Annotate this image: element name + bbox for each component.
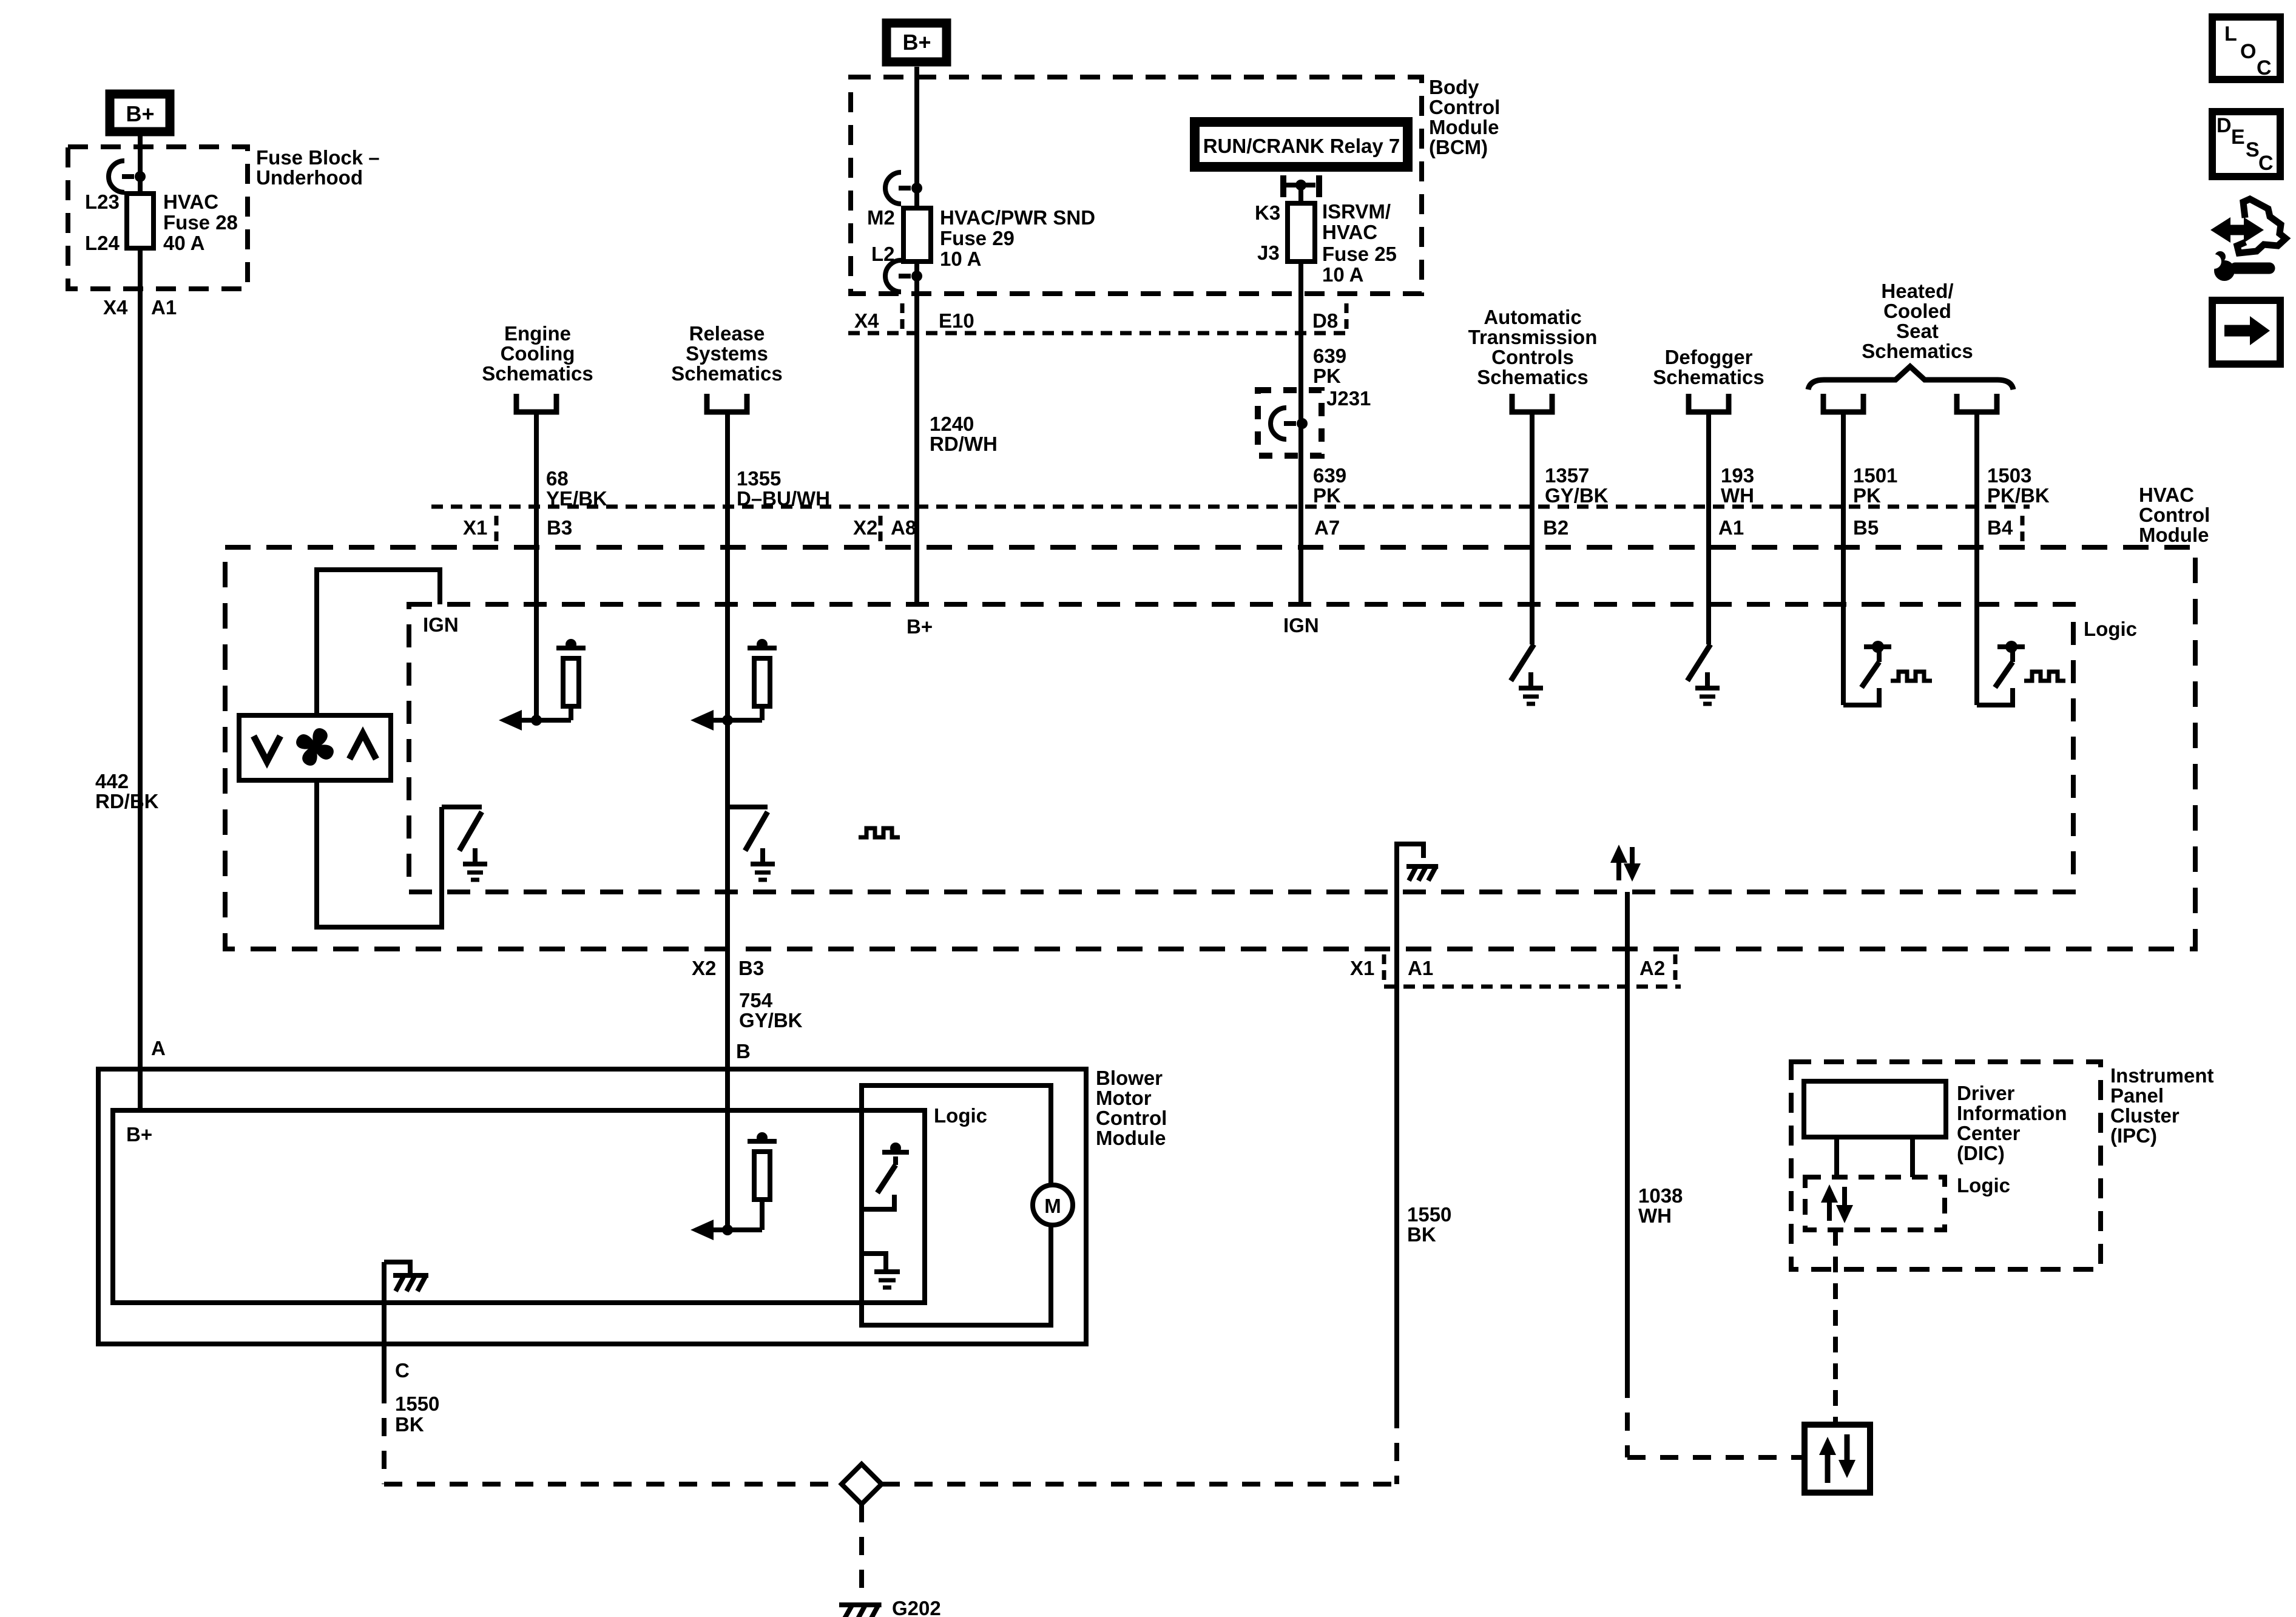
svg-text:A1: A1 [1408, 957, 1433, 979]
icon forward reference arrow box [2212, 300, 2280, 364]
wire 442 RD/BK [138, 248, 143, 1110]
svg-text:O: O [2240, 40, 2256, 63]
wire 442 from B+ through Fuse 28 down to blower module [138, 136, 143, 194]
svg-text:Information: Information [1957, 1102, 2067, 1124]
in-line connector row X1/X2 of HVAC control module [431, 505, 2030, 509]
svg-text:C: C [395, 1359, 410, 1382]
wire fan box top loop to IGN logic [317, 570, 440, 715]
relay RUN/CRANK Relay 7 [1195, 122, 1408, 167]
driver information center DIC [1804, 1081, 1946, 1137]
fan control box [239, 715, 391, 780]
internal B+ rail box [113, 1110, 925, 1303]
svg-text:Logic: Logic [2084, 618, 2137, 640]
fuse F29 HVAC/PWR SND 10 A [903, 208, 931, 262]
svg-text:ISRVM/: ISRVM/ [1322, 200, 1391, 223]
svg-text:M2: M2 [867, 206, 895, 229]
connector tick X2 [879, 516, 883, 541]
svg-text:A1: A1 [1718, 516, 1744, 539]
svg-text:HVAC: HVAC [2139, 484, 2194, 506]
svg-text:A: A [151, 1037, 166, 1059]
schematic link symbol heated seat [1823, 394, 1863, 412]
fan icon [296, 728, 334, 766]
svg-text:Panel: Panel [2110, 1084, 2164, 1107]
instrument panel cluster IPC box [1791, 1062, 2101, 1269]
svg-text:X1: X1 [1350, 957, 1374, 979]
svg-text:1357: 1357 [1545, 464, 1589, 487]
schematic link symbol defogger [1689, 394, 1729, 412]
HVAC control module box [225, 547, 2195, 949]
svg-text:HVAC/PWR SND: HVAC/PWR SND [940, 206, 1095, 229]
brace heated/cooled seat schematics [1808, 366, 2013, 390]
splice clip at fuse block [109, 161, 134, 192]
icon connector end view (double arrow, glove outline, wrench) [2226, 225, 2250, 235]
resistor pull-up on blower input B [748, 1139, 777, 1144]
svg-text:G202: G202 [892, 1597, 941, 1617]
svg-text:Schematics: Schematics [1653, 366, 1764, 388]
schematic link symbol automatic transmission controls [1512, 394, 1552, 412]
wire 1550 BK from blower C terminal [382, 1262, 387, 1385]
svg-text:68: 68 [546, 467, 569, 490]
wire 1550 BK from HVAC [1394, 844, 1399, 1410]
svg-text:BK: BK [1407, 1223, 1436, 1246]
fuse block - underhood box [68, 147, 248, 289]
svg-text:1240: 1240 [930, 413, 974, 435]
wire DIC to logic right [1910, 1137, 1915, 1177]
blower logic box [862, 1085, 1051, 1325]
power symbol B+ (underhood) [110, 94, 170, 132]
splice clip above fuse 29 [885, 172, 911, 204]
svg-text:WH: WH [1721, 484, 1754, 507]
svg-text:D: D [2217, 114, 2232, 137]
svg-text:Fuse 28: Fuse 28 [163, 211, 238, 234]
svg-text:Release: Release [689, 322, 765, 345]
svg-text:442: 442 [95, 770, 129, 792]
switch in blower logic [882, 1150, 909, 1155]
body control module BCM box [851, 77, 1422, 294]
svg-text:10 A: 10 A [940, 248, 981, 270]
svg-text:Automatic: Automatic [1484, 306, 1581, 328]
wire fan box bottom loop to output switch [317, 780, 442, 927]
svg-text:Logic: Logic [934, 1104, 987, 1127]
schematic link symbol engine cooling [516, 394, 556, 412]
wire 639 PK from fuse 25 to HVAC control module [1298, 262, 1303, 604]
svg-text:Fuse Block –: Fuse Block – [256, 146, 380, 169]
fan increase chevron [349, 734, 376, 759]
svg-text:IGN: IGN [1283, 614, 1319, 636]
svg-text:Module: Module [2139, 524, 2209, 546]
chassis ground hook in blower module (wire C) [384, 1262, 410, 1273]
icon DESC box [2212, 112, 2280, 177]
svg-text:40 A: 40 A [163, 232, 204, 254]
svg-text:PK: PK [1313, 484, 1341, 507]
svg-text:Fuse 29: Fuse 29 [940, 227, 1015, 249]
svg-text:C: C [2257, 56, 2272, 79]
svg-text:Driver: Driver [1957, 1082, 2015, 1104]
svg-text:K3: K3 [1255, 201, 1280, 224]
signal ground defogger input [1705, 672, 1710, 688]
svg-text:PK/BK: PK/BK [1987, 484, 2050, 507]
svg-text:Module: Module [1096, 1127, 1166, 1149]
svg-text:Heated/: Heated/ [1881, 280, 1953, 302]
svg-text:L: L [2224, 22, 2237, 46]
svg-text:A8: A8 [891, 516, 916, 539]
svg-text:Cooled: Cooled [1883, 300, 1951, 322]
schematic link symbol cooled seat [1957, 394, 1997, 412]
svg-text:D8: D8 [1312, 309, 1338, 332]
svg-text:Controls: Controls [1491, 346, 1574, 368]
signal ground ATC input [1528, 672, 1533, 688]
relay contact bracket [1280, 175, 1286, 197]
svg-text:639: 639 [1313, 345, 1346, 367]
svg-text:639: 639 [1313, 464, 1346, 487]
splice clip J231 [1271, 408, 1296, 439]
blower command output switch [728, 805, 768, 809]
fan decrease chevron [254, 736, 280, 761]
fuse F28 HVAC Fuse 28 40 A [127, 194, 154, 248]
wire 68 YE/BK [534, 412, 539, 720]
wire DIC to logic left [1834, 1137, 1839, 1177]
power symbol B+ (BCM) [886, 23, 947, 62]
svg-text:1503: 1503 [1987, 464, 2031, 487]
svg-text:Schematics: Schematics [482, 362, 593, 385]
svg-text:Instrument: Instrument [2110, 1064, 2214, 1087]
svg-text:X4: X4 [854, 309, 879, 332]
svg-text:Blower: Blower [1096, 1067, 1163, 1089]
ground bus to G202 [384, 1482, 842, 1487]
fuse F25 ISRVM/HVAC Fuse 25 10 A [1288, 203, 1315, 262]
svg-text:Underhood: Underhood [256, 166, 363, 189]
svg-text:RD/BK: RD/BK [95, 790, 159, 812]
svg-text:B3: B3 [547, 516, 572, 539]
svg-text:B+: B+ [902, 30, 931, 55]
svg-text:X2: X2 [853, 516, 877, 539]
svg-text:X1: X1 [463, 516, 487, 539]
svg-text:(IPC): (IPC) [2110, 1124, 2157, 1147]
svg-text:Center: Center [1957, 1122, 2021, 1144]
svg-text:B+: B+ [126, 101, 154, 126]
svg-text:PK: PK [1313, 365, 1341, 387]
connector tick X1|A1 [1382, 954, 1386, 985]
splice clip below fuse 29 [885, 260, 911, 292]
splice J231 box [1258, 390, 1322, 456]
svg-text:Defogger: Defogger [1665, 346, 1753, 368]
svg-text:(DIC): (DIC) [1957, 1142, 2005, 1164]
resistor pull-up on input B3 [556, 646, 586, 650]
svg-text:754: 754 [739, 989, 773, 1011]
svg-text:Schematics: Schematics [1477, 366, 1588, 388]
svg-text:S: S [2246, 138, 2260, 161]
svg-text:RUN/CRANK Relay 7: RUN/CRANK Relay 7 [1203, 135, 1400, 157]
heated seat output switch w/ PWM [1843, 688, 1879, 705]
svg-text:IGN: IGN [423, 613, 459, 636]
connector line X4/E10/D8 [848, 331, 1350, 336]
defogger input switch [1687, 644, 1710, 681]
wire B+ into BCM [914, 67, 919, 208]
svg-text:1550: 1550 [395, 1393, 439, 1415]
ground G202 [839, 1605, 882, 1617]
svg-text:BK: BK [395, 1413, 424, 1436]
serial data arrows in node box [1825, 1451, 1831, 1483]
serial data arrows in HVAC logic [1616, 857, 1621, 880]
svg-text:A7: A7 [1314, 516, 1340, 539]
svg-text:Logic: Logic [1957, 1174, 2010, 1197]
splice diamond [842, 1464, 882, 1504]
IPC logic box [1805, 1177, 1945, 1230]
svg-text:HVAC: HVAC [1322, 221, 1377, 243]
svg-text:A1: A1 [151, 296, 177, 319]
svg-text:Systems: Systems [686, 342, 768, 365]
connector tick A2 [1673, 954, 1678, 985]
svg-text:B+: B+ [126, 1123, 152, 1146]
connector tick X1 [495, 516, 499, 541]
svg-text:E10: E10 [939, 309, 974, 332]
svg-text:A2: A2 [1639, 957, 1665, 979]
svg-text:E: E [2231, 126, 2245, 149]
icon LOC box [2212, 17, 2280, 79]
svg-text:Fuse 25: Fuse 25 [1322, 243, 1397, 265]
svg-text:1038: 1038 [1638, 1184, 1683, 1207]
svg-text:Schematics: Schematics [1862, 340, 1973, 362]
svg-text:B2: B2 [1543, 516, 1568, 539]
svg-text:C: C [2258, 152, 2274, 175]
svg-text:L23: L23 [85, 191, 120, 213]
connector tick X4|E10 [900, 303, 905, 331]
wire 1355 D-BU/WH then 754 GY/BK down to blower module [725, 412, 730, 1230]
svg-text:Body: Body [1429, 76, 1479, 98]
svg-text:B5: B5 [1853, 516, 1879, 539]
svg-text:WH: WH [1638, 1204, 1672, 1227]
wire relay to fuse 25 [1298, 185, 1303, 203]
svg-text:B+: B+ [907, 615, 933, 638]
signal ground at blower command switch [760, 848, 765, 864]
svg-text:(BCM): (BCM) [1429, 136, 1488, 158]
cooled seat output switch w/ PWM [1977, 688, 2013, 705]
svg-text:HVAC: HVAC [163, 191, 218, 213]
svg-text:10 A: 10 A [1322, 263, 1363, 286]
wire 1357 GY/BK [1530, 412, 1535, 644]
svg-text:B4: B4 [1987, 516, 2013, 539]
svg-text:Control: Control [1096, 1107, 1167, 1129]
fan output switch [442, 805, 482, 809]
svg-text:Engine: Engine [504, 322, 571, 345]
svg-text:Control: Control [1429, 96, 1500, 118]
svg-text:J231: J231 [1326, 387, 1371, 410]
serial data arrows in IPC logic [1827, 1197, 1832, 1221]
wire to G202 [859, 1504, 864, 1598]
wire 1501 PK [1841, 412, 1846, 705]
chassis ground hook in HVAC logic (1550 BK output) [1397, 844, 1423, 891]
svg-text:Control: Control [2139, 504, 2210, 526]
svg-text:Motor: Motor [1096, 1087, 1152, 1109]
svg-text:X4: X4 [103, 296, 128, 319]
PWM symbol at blower command switch [859, 828, 900, 837]
svg-text:Cluster: Cluster [2110, 1104, 2180, 1127]
HVAC logic box [409, 604, 2073, 892]
svg-text:J3: J3 [1257, 241, 1280, 264]
svg-text:Seat: Seat [1896, 320, 1939, 342]
connector tick B4 [2021, 516, 2025, 541]
svg-text:B3: B3 [738, 957, 764, 979]
svg-text:L24: L24 [85, 232, 120, 254]
signal ground in blower logic [862, 1254, 886, 1272]
connector tick D8 [1345, 303, 1349, 331]
schematic link symbol release systems [707, 394, 747, 412]
svg-text:1550: 1550 [1407, 1203, 1451, 1226]
svg-text:Schematics: Schematics [671, 362, 782, 385]
svg-text:PK: PK [1853, 484, 1881, 507]
ATC input switch [1511, 644, 1534, 681]
wire 1240 RD/WH from fuse 29 to HVAC control module [914, 262, 919, 604]
wire 1503 PK/BK [1974, 412, 1979, 705]
serial data node box [1805, 1425, 1870, 1493]
serial data wire from IPC [1833, 1230, 1838, 1425]
signal ground at fan switch [473, 848, 478, 864]
svg-text:1355: 1355 [737, 467, 781, 490]
blower motor control module box [98, 1069, 1086, 1344]
svg-text:Cooling: Cooling [501, 342, 575, 365]
svg-text:1501: 1501 [1853, 464, 1897, 487]
svg-text:X2: X2 [692, 957, 716, 979]
svg-text:Transmission: Transmission [1468, 326, 1598, 348]
wire 193 WH [1706, 412, 1711, 644]
svg-text:GY/BK: GY/BK [739, 1009, 803, 1031]
svg-text:Module: Module [1429, 116, 1499, 138]
svg-text:M: M [1044, 1195, 1061, 1217]
svg-text:193: 193 [1721, 464, 1754, 487]
svg-text:GY/BK: GY/BK [1545, 484, 1609, 507]
connector row X1 A1/A2 [1384, 985, 1681, 989]
motor M [1033, 1185, 1073, 1225]
svg-text:B: B [736, 1040, 751, 1062]
svg-text:RD/WH: RD/WH [930, 433, 998, 455]
wire 1038 WH serial data [1625, 892, 1630, 1380]
resistor pull-up on input B2 [748, 646, 777, 650]
